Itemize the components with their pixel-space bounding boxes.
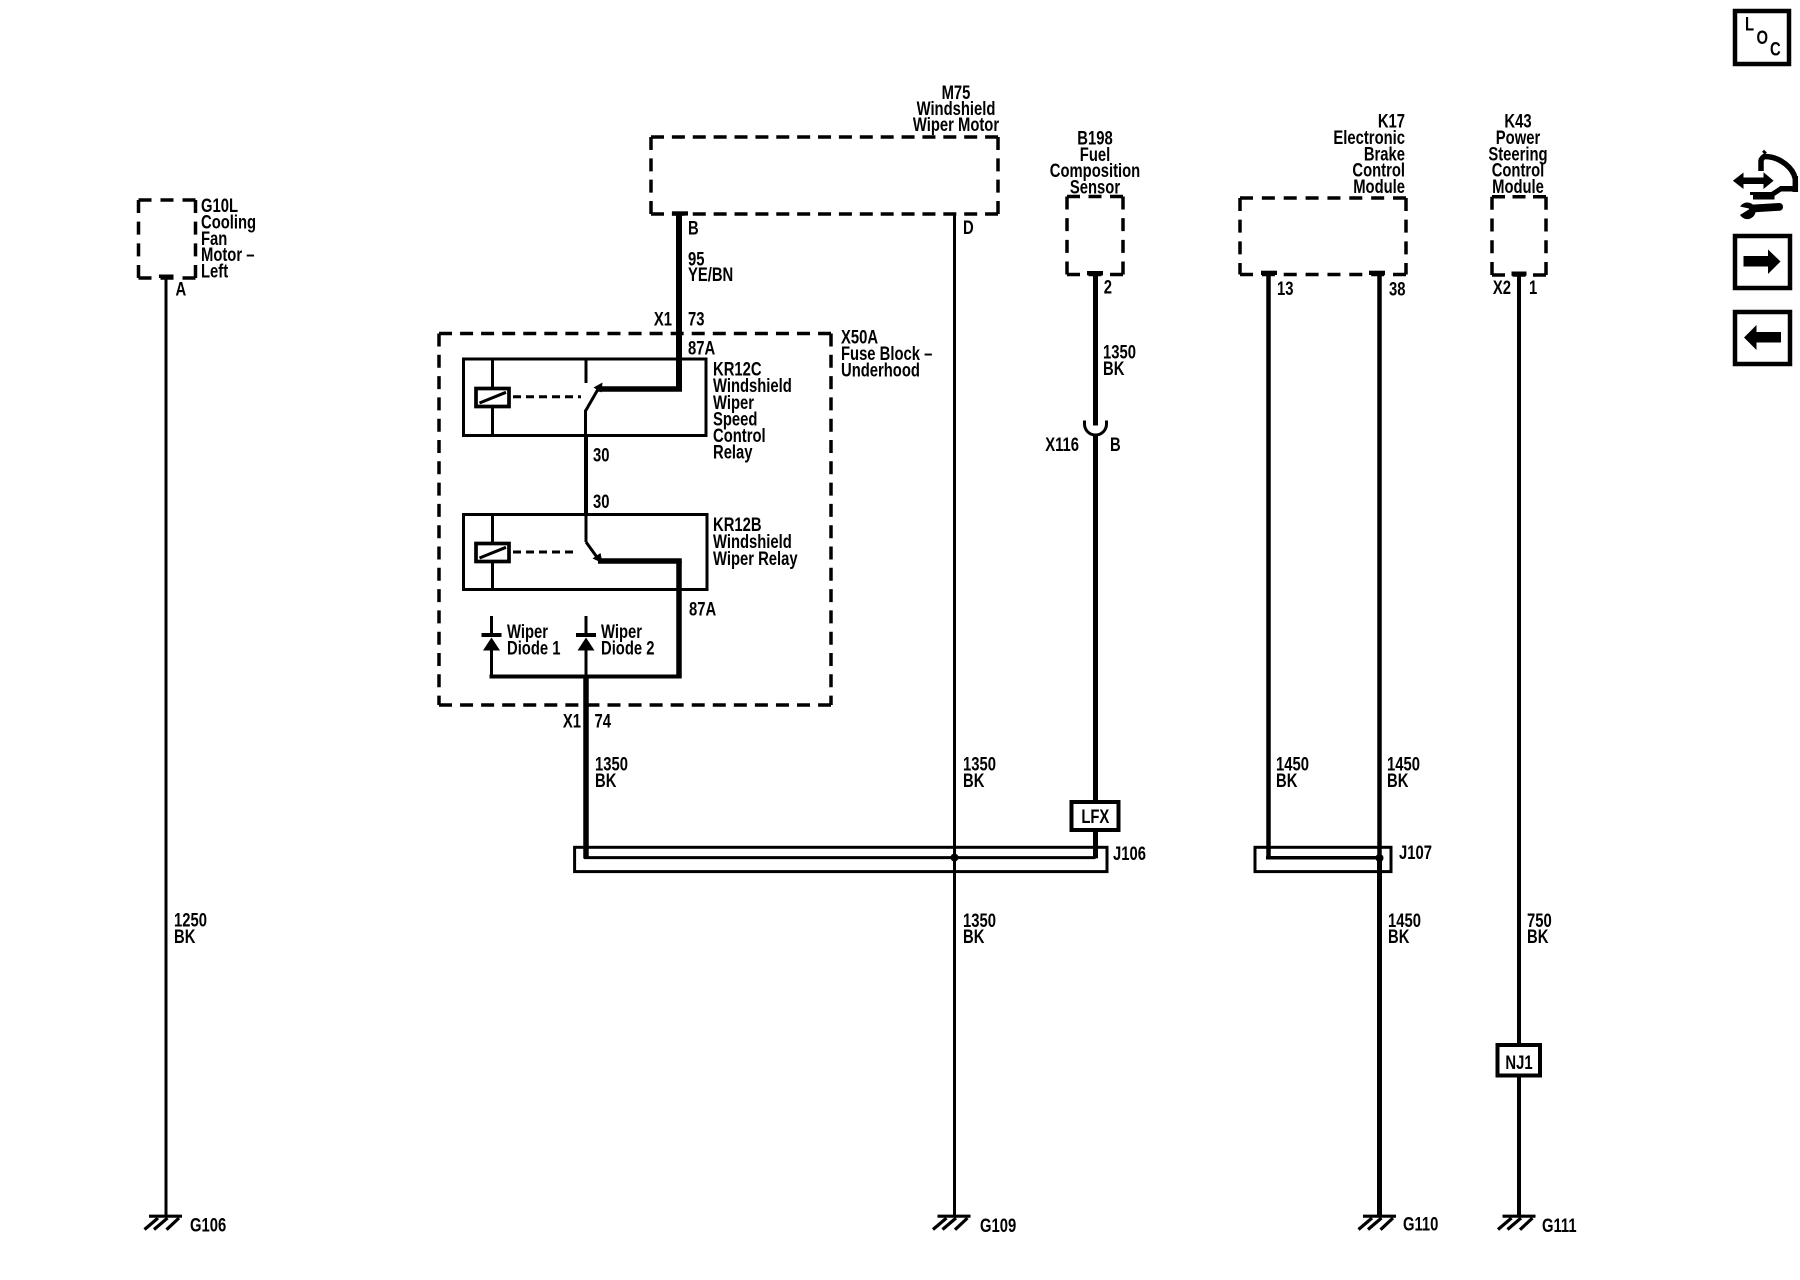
svg-text:J107: J107 bbox=[1399, 842, 1432, 863]
wire G10L A to G106 (1250 BK) bbox=[165, 276, 168, 1216]
svg-text:X1: X1 bbox=[654, 309, 672, 330]
main output wire X1 74 down to J106 bbox=[583, 677, 589, 859]
pin 38 tick on K17 bbox=[1369, 271, 1385, 275]
KR12B coil bbox=[476, 544, 509, 562]
svg-text:74: 74 bbox=[595, 711, 612, 732]
pin 1 tick on K43 bbox=[1512, 272, 1527, 276]
ground G109 bbox=[933, 1216, 971, 1230]
J107 internal bus wire bbox=[1266, 856, 1380, 860]
svg-text:73: 73 bbox=[688, 309, 704, 330]
svg-text:G106: G106 bbox=[190, 1215, 226, 1236]
svg-text:WiperDiode 2: WiperDiode 2 bbox=[601, 621, 654, 658]
svg-text:O: O bbox=[1757, 27, 1769, 48]
svg-text:G111: G111 bbox=[1542, 1215, 1577, 1236]
svg-text:1: 1 bbox=[1529, 277, 1537, 298]
svg-text:X2: X2 bbox=[1493, 277, 1511, 298]
svg-text:K43PowerSteeringControlModule: K43PowerSteeringControlModule bbox=[1488, 111, 1547, 197]
svg-text:D: D bbox=[963, 217, 974, 238]
wire K17 pin 13 down (1450 BK) bbox=[1266, 272, 1271, 859]
component K43 Power Steering Control Module dashed box bbox=[1492, 197, 1546, 275]
KR12C coil bbox=[476, 389, 509, 407]
wire LFX to J106 bbox=[1093, 830, 1098, 858]
pin A tick on G10L bbox=[159, 275, 174, 279]
repair icon wrench bbox=[1736, 203, 1784, 220]
component G10L Cooling Fan Motor Left dashed box bbox=[139, 200, 196, 278]
pin 13 tick on K17 bbox=[1261, 271, 1277, 275]
svg-text:C: C bbox=[1770, 39, 1781, 60]
splice pack J106 box bbox=[575, 847, 1107, 871]
svg-text:G109: G109 bbox=[980, 1215, 1016, 1236]
KR12C pivot line bbox=[584, 410, 587, 436]
splice pack J107 box bbox=[1255, 847, 1391, 871]
KR12B 87A internal wire bbox=[598, 558, 682, 564]
KR12C 87A internal wire bbox=[598, 386, 682, 392]
svg-text:38: 38 bbox=[1389, 279, 1405, 300]
wiper diode 1 bbox=[490, 616, 493, 634]
option box LFX bbox=[1072, 802, 1119, 830]
wire M75 B down (95 YE/BN) bbox=[676, 213, 682, 392]
svg-text:87A: 87A bbox=[689, 599, 716, 620]
KR12B switch blade bbox=[586, 542, 599, 560]
svg-text:B198FuelCompositionSensor: B198FuelCompositionSensor bbox=[1050, 128, 1140, 198]
diode bottom bus wire bbox=[490, 675, 682, 679]
component B198 Fuel Composition Sensor dashed box bbox=[1067, 197, 1123, 275]
connector X116 inline bbox=[1085, 421, 1107, 436]
svg-text:G110: G110 bbox=[1403, 1214, 1438, 1235]
LOC legend box top right bbox=[1735, 11, 1789, 64]
wire NJ1 to G111 bbox=[1517, 1076, 1521, 1217]
wire B198 pin 2 down (1350 BK) upper segment bbox=[1093, 273, 1098, 426]
wire KR12B 87A down bbox=[676, 561, 682, 679]
repair icon double arrow bbox=[1733, 172, 1774, 189]
option box NJ1 bbox=[1498, 1045, 1541, 1076]
junction dot J107 bbox=[1376, 854, 1384, 862]
nav box arrow left bbox=[1735, 312, 1790, 364]
svg-text:M75WindshieldWiper Motor: M75WindshieldWiper Motor bbox=[913, 82, 1000, 135]
component K17 Electronic Brake Control Module dashed box bbox=[1240, 198, 1406, 275]
repair icon curved arrow outline bbox=[1753, 151, 1798, 196]
wire 30 between relays bbox=[584, 436, 588, 515]
svg-text:B: B bbox=[1110, 434, 1121, 455]
component X50A Fuse Block Underhood dashed box bbox=[439, 334, 831, 706]
svg-text:LFX: LFX bbox=[1081, 806, 1110, 827]
svg-text:750BK: 750BK bbox=[1527, 910, 1552, 948]
svg-text:1350BK: 1350BK bbox=[963, 754, 996, 792]
svg-text:1350BK: 1350BK bbox=[963, 910, 996, 948]
ground G106 bbox=[145, 1216, 183, 1230]
component M75 Windshield Wiper Motor dashed box bbox=[651, 137, 998, 214]
svg-text:30: 30 bbox=[593, 445, 609, 466]
svg-text:1450BK: 1450BK bbox=[1388, 910, 1421, 948]
wiper diode 2 bbox=[585, 616, 588, 634]
svg-text:WiperDiode 1: WiperDiode 1 bbox=[507, 621, 560, 658]
svg-text:X50AFuse Block –Underhood: X50AFuse Block –Underhood bbox=[841, 327, 932, 381]
ground G110 bbox=[1359, 1216, 1397, 1230]
nav box arrow right bbox=[1735, 236, 1790, 288]
ground G111 bbox=[1498, 1216, 1536, 1230]
pin 2 tick on B198 bbox=[1087, 271, 1103, 275]
wire K17 pin 38 down (1450 BK) bbox=[1377, 272, 1382, 858]
J106 internal bus wire bbox=[584, 856, 1096, 859]
svg-text:J106: J106 bbox=[1113, 843, 1146, 864]
svg-text:30: 30 bbox=[593, 491, 609, 512]
svg-text:B: B bbox=[688, 218, 699, 239]
svg-text:87A: 87A bbox=[688, 338, 715, 359]
relay KR12C Windshield Wiper Speed Control Relay box bbox=[464, 359, 707, 436]
svg-text:2: 2 bbox=[1104, 277, 1112, 298]
KR12C coil-switch dashed link bbox=[513, 395, 581, 398]
wire K43 pin 1 down (750 BK) bbox=[1517, 275, 1521, 1046]
KR12C fixed contact stub bbox=[585, 359, 588, 383]
KR12C coil feed line bbox=[491, 359, 494, 436]
svg-text:X116: X116 bbox=[1045, 434, 1079, 455]
svg-text:13: 13 bbox=[1277, 278, 1293, 299]
svg-text:95YE/BN: 95YE/BN bbox=[688, 249, 733, 286]
svg-text:L: L bbox=[1745, 14, 1754, 35]
junction dot J106 at D wire bbox=[951, 854, 959, 862]
svg-text:1350BK: 1350BK bbox=[1103, 342, 1136, 380]
svg-text:X1: X1 bbox=[563, 711, 581, 732]
svg-text:KR12BWindshieldWiper Relay: KR12BWindshieldWiper Relay bbox=[713, 514, 798, 569]
svg-text:NJ1: NJ1 bbox=[1505, 1052, 1532, 1073]
wire B198 lower segment to LFX bbox=[1093, 435, 1098, 804]
relay KR12B Windshield Wiper Relay box bbox=[464, 515, 708, 590]
pin B tick on M75 bbox=[672, 211, 688, 215]
svg-text:1450BK: 1450BK bbox=[1276, 754, 1309, 792]
KR12B coil-switch dashed link bbox=[513, 551, 578, 554]
wire M75 D to G109 (1350 BK) bbox=[953, 213, 956, 1217]
svg-text:A: A bbox=[176, 279, 187, 300]
svg-text:K17ElectronicBrakeControlModul: K17ElectronicBrakeControlModule bbox=[1333, 111, 1405, 197]
svg-text:G10LCoolingFanMotor –Left: G10LCoolingFanMotor –Left bbox=[201, 195, 256, 282]
svg-text:1350BK: 1350BK bbox=[595, 754, 628, 792]
svg-text:1250BK: 1250BK bbox=[174, 910, 207, 948]
wire J107 to G110 (1450 BK) bbox=[1377, 858, 1382, 1216]
KR12B fixed contact stub bbox=[585, 515, 588, 543]
svg-text:KR12CWindshieldWiperSpeedContr: KR12CWindshieldWiperSpeedControlRelay bbox=[713, 359, 792, 463]
KR12C switch blade bbox=[586, 388, 600, 412]
svg-text:1450BK: 1450BK bbox=[1387, 754, 1420, 792]
KR12B coil feed line bbox=[491, 515, 494, 590]
